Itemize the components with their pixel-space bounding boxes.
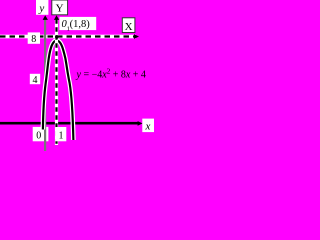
original y-axis (gray) [44,19,46,151]
svg-text:Y: Y [56,3,64,15]
label box 1 [55,127,66,141]
svg-text:0: 0 [36,131,41,142]
label box x [142,119,154,133]
dashed translated X-axis white casing [0,35,136,39]
parabola white casing [43,41,74,140]
label box O1(1,8) [59,17,96,30]
svg-text:y: y [38,2,44,14]
svg-text:4: 4 [33,75,38,86]
dashed translated Y-axis [55,19,57,145]
label box X [122,18,135,33]
svg-text:x: x [144,120,150,132]
label box 8 [28,32,40,43]
dashed translated Y-axis white casing [55,19,58,145]
label box y [36,0,48,15]
original x-axis [0,122,139,125]
arrowhead of X-axis [134,34,139,39]
label box 4 [30,74,40,84]
parabola y=-4x^2+8x+4 [43,41,74,140]
label box 0 [33,127,49,141]
svg-text:1: 1 [59,131,64,142]
vertex point (1,8) [55,35,59,39]
svg-text:(1,8): (1,8) [70,19,91,30]
arrowhead of y-axis [43,15,48,20]
arrowhead of Y-axis [54,15,59,20]
svg-text:y = −4x2 + 8x + 4: y = −4x2 + 8x + 4 [76,68,146,81]
svg-text:8: 8 [31,34,36,45]
label box Y [52,0,68,15]
svg-text:X: X [125,21,133,33]
arrowhead of x-axis [138,121,143,126]
dashed translated X-axis [0,35,136,37]
